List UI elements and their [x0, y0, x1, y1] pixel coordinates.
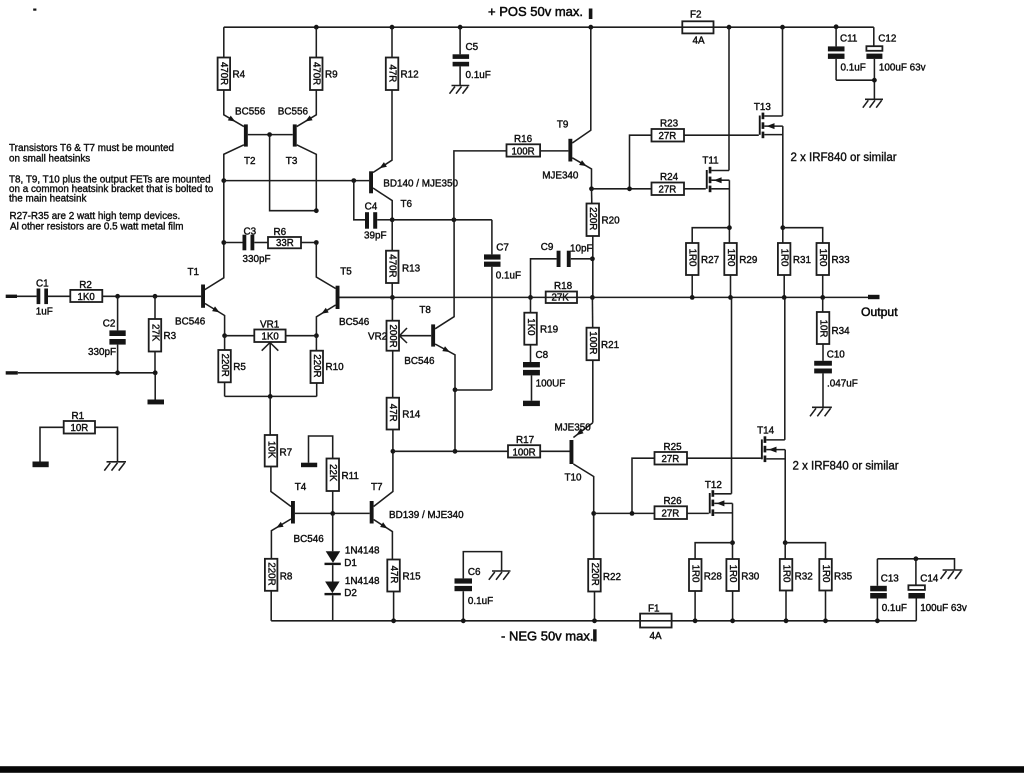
node junction T12 source/R28: [730, 540, 735, 545]
svg-text:R24: R24: [660, 172, 679, 183]
ground slashed under C10: [810, 407, 832, 416]
svg-text:.047uF: .047uF: [827, 379, 858, 390]
svg-text:C1: C1: [36, 279, 49, 290]
ground bar under C8: [523, 401, 540, 406]
wire to ground bar: [154, 373, 156, 400]
svg-text:1R0: 1R0: [725, 249, 736, 267]
svg-text:R28: R28: [704, 572, 723, 583]
wire R1 left to ground: [40, 427, 64, 461]
svg-text:100R: 100R: [512, 146, 535, 157]
svg-text:2 x IRF840 or similar: 2 x IRF840 or similar: [791, 152, 897, 164]
svg-text:C10: C10: [827, 350, 846, 361]
svg-text:R14: R14: [402, 410, 421, 421]
node junction R27/output line: [690, 295, 695, 300]
resistor R23: [630, 119, 759, 189]
node junction T14 source/R35: [783, 540, 788, 545]
node junction R20/R21 on output line: [590, 295, 595, 300]
svg-text:10K: 10K: [265, 441, 276, 459]
wire T9 emitter to R24 vertical: [592, 188, 630, 190]
node junction T2/T3 bases: [267, 132, 272, 137]
svg-text:4A: 4A: [650, 631, 662, 642]
resistor R10: [311, 336, 345, 397]
svg-text:0.1uF: 0.1uF: [841, 63, 866, 74]
node junction R13/VR2 on output line: [390, 295, 395, 300]
node junction base chain: [330, 511, 335, 516]
svg-text:47R: 47R: [386, 65, 397, 83]
svg-text:D2: D2: [344, 588, 357, 599]
svg-text:- NEG 50v max.: - NEG 50v max.: [501, 629, 593, 644]
svg-text:T8: T8: [419, 305, 431, 316]
transistor T1 BC546: [175, 267, 225, 336]
resistor R28: [689, 543, 733, 621]
svg-text:R29: R29: [739, 255, 758, 266]
resistor R26: [594, 496, 709, 519]
svg-text:the main heatsink: the main heatsink: [9, 194, 86, 205]
transistor T13 MOSFET: [754, 27, 783, 243]
svg-text:27R: 27R: [659, 185, 677, 196]
resistor R11: [309, 436, 360, 513]
capacitor C5: [453, 27, 491, 85]
ground slashed right of C6: [489, 571, 511, 580]
svg-text:F1: F1: [648, 604, 660, 615]
svg-text:+ POS 50v max.: + POS 50v max.: [488, 4, 583, 19]
node junction C12 bottom: [872, 78, 877, 83]
ground bar R1 left: [33, 462, 49, 468]
node junction R23/R24 left: [627, 186, 632, 191]
resistor R16: [454, 134, 569, 220]
svg-text:R30: R30: [741, 572, 760, 583]
svg-text:100UF: 100UF: [536, 379, 566, 390]
svg-text:33R: 33R: [276, 238, 294, 249]
svg-text:VR1: VR1: [260, 319, 280, 330]
node junction C4 tap: [351, 178, 356, 183]
svg-text:1R0: 1R0: [727, 565, 738, 583]
svg-text:T1: T1: [188, 267, 200, 278]
resistor R14: [387, 398, 421, 451]
node junction rail/R22: [592, 618, 597, 623]
svg-text:0.1uF: 0.1uF: [882, 603, 907, 614]
node junction T10 collector/R25R26: [591, 511, 596, 516]
svg-text:39pF: 39pF: [364, 231, 387, 242]
resistor R20: [587, 189, 621, 298]
svg-text:C5: C5: [466, 42, 479, 53]
svg-text:1R0: 1R0: [780, 565, 791, 583]
capacitor C14 electrolytic: [908, 556, 967, 620]
svg-text:R13: R13: [402, 264, 421, 275]
wire C11 to C12 bottom: [836, 79, 874, 81]
svg-text:R21: R21: [601, 340, 620, 351]
svg-text:27R: 27R: [659, 131, 677, 142]
svg-text:470R: 470R: [387, 254, 398, 277]
svg-text:470R: 470R: [218, 62, 229, 85]
svg-text:27R: 27R: [662, 454, 680, 465]
svg-text:100R: 100R: [513, 447, 536, 458]
svg-text:R26: R26: [664, 496, 683, 507]
node junction rail/R30: [730, 618, 735, 623]
svg-text:R31: R31: [793, 255, 812, 266]
scan speck top-left: [33, 9, 36, 11]
svg-text:220R: 220R: [587, 207, 598, 230]
transistor T14 MOSFET: [757, 297, 785, 542]
svg-text:BD140 / MJE350: BD140 / MJE350: [383, 179, 458, 190]
resistor R1: [64, 411, 95, 434]
svg-text:330pF: 330pF: [243, 254, 271, 265]
ground slashed right of C14: [941, 570, 963, 579]
svg-text:C8: C8: [536, 350, 549, 361]
svg-text:R9: R9: [325, 70, 338, 81]
svg-text:T14: T14: [757, 426, 775, 437]
node junction R14/T7 collector: [391, 449, 396, 454]
ground bar below input rail: [148, 400, 165, 405]
node junction C2 bottom: [115, 370, 120, 375]
svg-text:1R0: 1R0: [690, 565, 701, 583]
svg-text:27K: 27K: [149, 324, 160, 342]
svg-text:C3: C3: [244, 227, 257, 238]
fuse F2: [682, 10, 713, 47]
svg-text:220R: 220R: [266, 562, 277, 585]
svg-text:R4: R4: [233, 70, 246, 81]
svg-text:on small heatsinks: on small heatsinks: [9, 154, 90, 165]
transistor T7 BD139: [370, 451, 464, 560]
wire R5/R10 bottom link: [225, 395, 317, 397]
node junction rail/R32: [784, 618, 789, 623]
resistor R22: [588, 513, 621, 620]
wire R2 to T1 base: [102, 295, 201, 297]
resistor R35: [785, 543, 852, 621]
svg-text:T10: T10: [565, 473, 583, 484]
node junction rail/C13: [875, 618, 880, 623]
svg-text:T6: T6: [401, 199, 413, 210]
resistor R31: [778, 243, 812, 297]
terminal input bottom: [6, 371, 18, 374]
svg-text:470R: 470R: [311, 62, 322, 85]
transistor T12 MOSFET: [705, 297, 733, 559]
transistor T10 MJE350: [555, 423, 594, 560]
transistor T4 BC546: [271, 482, 369, 559]
svg-text:R33: R33: [832, 255, 851, 266]
svg-text:T5: T5: [340, 267, 352, 278]
wire C4 node to C7 corner: [392, 219, 492, 221]
svg-text:27K: 27K: [552, 293, 570, 304]
capacitor C8: [523, 350, 565, 401]
svg-text:R19: R19: [540, 325, 559, 336]
svg-text:R7: R7: [280, 448, 293, 459]
resistor R6: [254, 227, 316, 249]
svg-text:1R0: 1R0: [779, 249, 790, 267]
svg-text:1R0: 1R0: [817, 249, 828, 267]
svg-text:C12: C12: [878, 34, 896, 45]
node junction R3 top: [153, 294, 158, 299]
resistor R30: [726, 559, 759, 621]
wire C1 to R2: [48, 295, 70, 297]
svg-text:Transistors T6 & T7 must be mo: Transistors T6 & T7 must be mounted: [9, 143, 174, 154]
node junction T6 base line left: [221, 178, 226, 183]
wire bottom negative rail: [271, 620, 916, 622]
capacitor C4: [354, 181, 392, 242]
node junction rail/C6: [461, 618, 466, 623]
resistor R32: [780, 543, 813, 621]
svg-text:C14: C14: [920, 573, 939, 584]
node junction rail/T11: [727, 25, 732, 30]
node junction T8 emitter/R17: [453, 449, 458, 454]
svg-text:R2: R2: [79, 280, 92, 291]
svg-text:1K0: 1K0: [262, 331, 280, 342]
svg-text:4A: 4A: [693, 36, 705, 47]
svg-text:220R: 220R: [311, 354, 322, 377]
resistor R24: [630, 172, 706, 196]
capacitor C11: [828, 27, 866, 80]
svg-text:R5: R5: [233, 362, 246, 373]
terminal output: [868, 295, 880, 299]
transistor T6 BD140: [369, 90, 458, 220]
node junction T11 source/R27: [727, 225, 732, 230]
terminal mark -NEG: [593, 629, 597, 641]
capacitor C7: [484, 220, 521, 390]
svg-text:C7: C7: [496, 243, 509, 254]
svg-text:R12: R12: [401, 70, 419, 81]
wire R1 right to ground: [95, 427, 118, 461]
svg-text:R10: R10: [326, 362, 345, 373]
svg-text:R16: R16: [514, 134, 533, 145]
svg-text:BD139 / MJE340: BD139 / MJE340: [389, 510, 464, 521]
wire T3 collector to T5: [316, 243, 335, 289]
svg-text:10R: 10R: [817, 320, 828, 338]
capacitor C9: [531, 242, 593, 297]
node junction rail/T9: [588, 25, 593, 30]
transistor T11 MOSFET: [702, 27, 729, 243]
svg-text:D1: D1: [344, 558, 357, 569]
wire T8 emitter down: [454, 390, 456, 452]
svg-text:C6: C6: [468, 567, 481, 578]
node junction C3 left: [221, 240, 226, 245]
capacitor C2: [88, 296, 126, 372]
svg-text:R6: R6: [274, 227, 287, 238]
svg-text:100uF 63v: 100uF 63v: [920, 603, 967, 614]
svg-text:T13: T13: [754, 102, 772, 113]
capacitor C1: [36, 279, 53, 318]
svg-text:0.1uF: 0.1uF: [496, 271, 521, 282]
resistor R7: [265, 396, 292, 506]
node junction rail/T13: [780, 25, 785, 30]
svg-text:C11: C11: [840, 34, 858, 45]
svg-text:R25: R25: [664, 442, 683, 453]
resistor R29: [724, 243, 758, 297]
svg-text:1R0: 1R0: [687, 249, 698, 267]
resistor R34: [817, 297, 850, 360]
terminal input top: [6, 295, 17, 298]
transistor T2 BC556: [224, 90, 270, 181]
capacitor C13: [870, 559, 954, 621]
resistor R15: [387, 560, 421, 621]
svg-text:C9: C9: [541, 242, 554, 253]
potentiometer VR1: [225, 319, 317, 396]
svg-text:C4: C4: [365, 202, 378, 213]
svg-text:T2: T2: [244, 156, 256, 167]
svg-text:T3: T3: [286, 156, 298, 167]
svg-text:T12: T12: [705, 480, 722, 491]
resistor R21: [587, 297, 620, 422]
svg-text:10R: 10R: [71, 423, 89, 434]
resistor R18: [546, 281, 577, 304]
wire R14 node to R17: [393, 450, 455, 452]
node junction R16 drop: [452, 217, 457, 222]
svg-text:R35: R35: [834, 571, 853, 582]
capacitor C3: [224, 227, 271, 266]
wire output line: [340, 296, 869, 298]
svg-text:BC546: BC546: [294, 534, 325, 545]
svg-text:R23: R23: [660, 119, 679, 130]
svg-text:0.1uF: 0.1uF: [466, 70, 491, 81]
svg-text:Output: Output: [861, 305, 898, 319]
note heatsink bracket: [9, 175, 214, 205]
node junction R33/R34/output line: [820, 295, 825, 300]
svg-text:Al other resistors are 0.5 wa: Al other resistors are 0.5 watt metal fi…: [10, 222, 183, 233]
svg-text:100R: 100R: [587, 331, 598, 354]
svg-text:1R0: 1R0: [820, 565, 831, 583]
resistor R27: [686, 228, 729, 298]
resistor R8: [265, 559, 293, 621]
wire top positive rail: [224, 26, 874, 28]
svg-text:R11: R11: [342, 471, 360, 482]
svg-text:47R: 47R: [387, 404, 398, 422]
node junction T6 collector/C4: [390, 217, 395, 222]
svg-text:BC556: BC556: [235, 106, 266, 117]
svg-text:BC546: BC546: [404, 356, 435, 367]
svg-text:1K0: 1K0: [525, 318, 536, 336]
wire C7 bottom to T8 emitter: [455, 389, 492, 391]
node junction R25/R26 left: [630, 511, 635, 516]
wire mirror base drop: [270, 135, 317, 211]
svg-text:T11: T11: [702, 156, 719, 167]
svg-text:R27-R35 are 2 watt high temp d: R27-R35 are 2 watt high temp devices.: [10, 211, 181, 222]
bottom scan border strip: [0, 766, 1024, 773]
ground bar R11 left: [301, 463, 317, 468]
resistor R5: [218, 336, 246, 397]
svg-text:MJE340: MJE340: [542, 171, 579, 182]
resistor R9: [310, 27, 338, 90]
svg-text:BC546: BC546: [339, 317, 370, 328]
transistor T5 BC546: [316, 286, 392, 336]
wire T6 base line: [224, 180, 369, 182]
wire input to C1: [17, 295, 37, 297]
node junction R2/C2: [115, 294, 120, 299]
node junction rail/C5: [458, 25, 463, 30]
svg-text:T7: T7: [371, 482, 383, 493]
note transistors mounting: [9, 143, 174, 165]
svg-text:100uF 63v: 100uF 63v: [879, 63, 926, 74]
svg-text:10pF: 10pF: [570, 244, 593, 255]
node junction rail/R15: [391, 618, 396, 623]
svg-text:1uF: 1uF: [36, 307, 53, 318]
resistor R4: [218, 27, 246, 90]
node junction VR1 wiper/R7: [268, 394, 273, 399]
resistor R13: [386, 220, 421, 298]
resistor R17: [455, 435, 570, 458]
node junction T13 source/R33: [780, 225, 785, 230]
svg-text:47R: 47R: [388, 566, 399, 584]
potentiometer VR2: [368, 297, 431, 350]
svg-text:R18: R18: [554, 281, 573, 292]
resistor R3: [149, 296, 177, 372]
svg-text:220R: 220R: [219, 354, 230, 377]
resistor R12: [386, 27, 419, 90]
svg-text:1N4148: 1N4148: [345, 576, 380, 587]
svg-text:330pF: 330pF: [88, 347, 116, 358]
svg-text:0.1uF: 0.1uF: [468, 596, 493, 607]
fuse F1: [640, 604, 672, 643]
transistor T9 MJE340: [542, 27, 591, 189]
transistor T3 BC556: [270, 90, 317, 211]
node junction R31/output line: [782, 295, 787, 300]
ground under C5: [450, 86, 470, 94]
capacitor C6: [455, 552, 502, 621]
node junction rail/C11: [834, 24, 839, 29]
transistor T8 BC546: [404, 220, 455, 390]
svg-text:R20: R20: [602, 216, 621, 227]
ground slashed R1 right: [104, 462, 126, 471]
svg-text:T4: T4: [295, 482, 307, 493]
svg-text:R3: R3: [164, 331, 177, 342]
node junction R20/C9: [590, 256, 595, 261]
resistor R19: [524, 297, 558, 362]
svg-text:VR2: VR2: [368, 332, 387, 343]
node junction R6/T3 collector: [314, 240, 319, 245]
svg-text:MJE350: MJE350: [555, 423, 592, 434]
svg-text:BC546: BC546: [175, 317, 206, 328]
svg-text:R8: R8: [280, 572, 293, 583]
resistor R25: [632, 442, 761, 514]
svg-text:F2: F2: [690, 10, 702, 21]
wire T2 collector to T1 collector: [204, 243, 224, 291]
svg-text:1K0: 1K0: [78, 292, 96, 303]
resistor R33: [783, 228, 850, 298]
node junction rail/R28: [693, 618, 698, 623]
ground under C12: [863, 99, 883, 107]
svg-text:1N4148: 1N4148: [345, 546, 380, 557]
svg-text:BC556: BC556: [278, 106, 309, 117]
svg-text:22K: 22K: [327, 464, 338, 482]
node junction T8 emitter/C7: [453, 387, 458, 392]
diode D1 1N4148: [325, 513, 380, 568]
svg-text:R1: R1: [72, 411, 85, 422]
wire lower input rail: [18, 372, 155, 374]
capacitor C12 electrolytic: [866, 27, 925, 99]
node junction T9 emitter/R23R24: [589, 186, 594, 191]
note resistor wattage: [10, 211, 184, 232]
wire VR2 bottom to R14: [392, 351, 394, 398]
wire T2 collector vertical: [223, 181, 225, 243]
svg-text:R34: R34: [832, 326, 851, 337]
diode D2 1N4148: [325, 565, 380, 621]
node junction rail end ground: [153, 370, 158, 375]
svg-text:2 x IRF840 or similar: 2 x IRF840 or similar: [793, 460, 899, 472]
node junction base drop/T3 collector: [314, 208, 319, 213]
svg-text:R15: R15: [403, 572, 422, 583]
svg-text:27R: 27R: [662, 508, 680, 519]
node junction rail/R12: [390, 25, 395, 30]
node junction T1 emitter/VR1: [222, 333, 227, 338]
resistor R2: [70, 280, 102, 303]
svg-text:C2: C2: [103, 319, 116, 330]
svg-text:R22: R22: [603, 572, 621, 583]
capacitor C10: [814, 350, 858, 408]
svg-text:R17: R17: [516, 435, 534, 446]
svg-text:200R: 200R: [387, 325, 398, 348]
svg-text:R27: R27: [701, 255, 719, 266]
node junction R29/output line: [728, 295, 733, 300]
node +POS supply label: [488, 4, 583, 19]
node junction rail/R35: [823, 618, 828, 623]
